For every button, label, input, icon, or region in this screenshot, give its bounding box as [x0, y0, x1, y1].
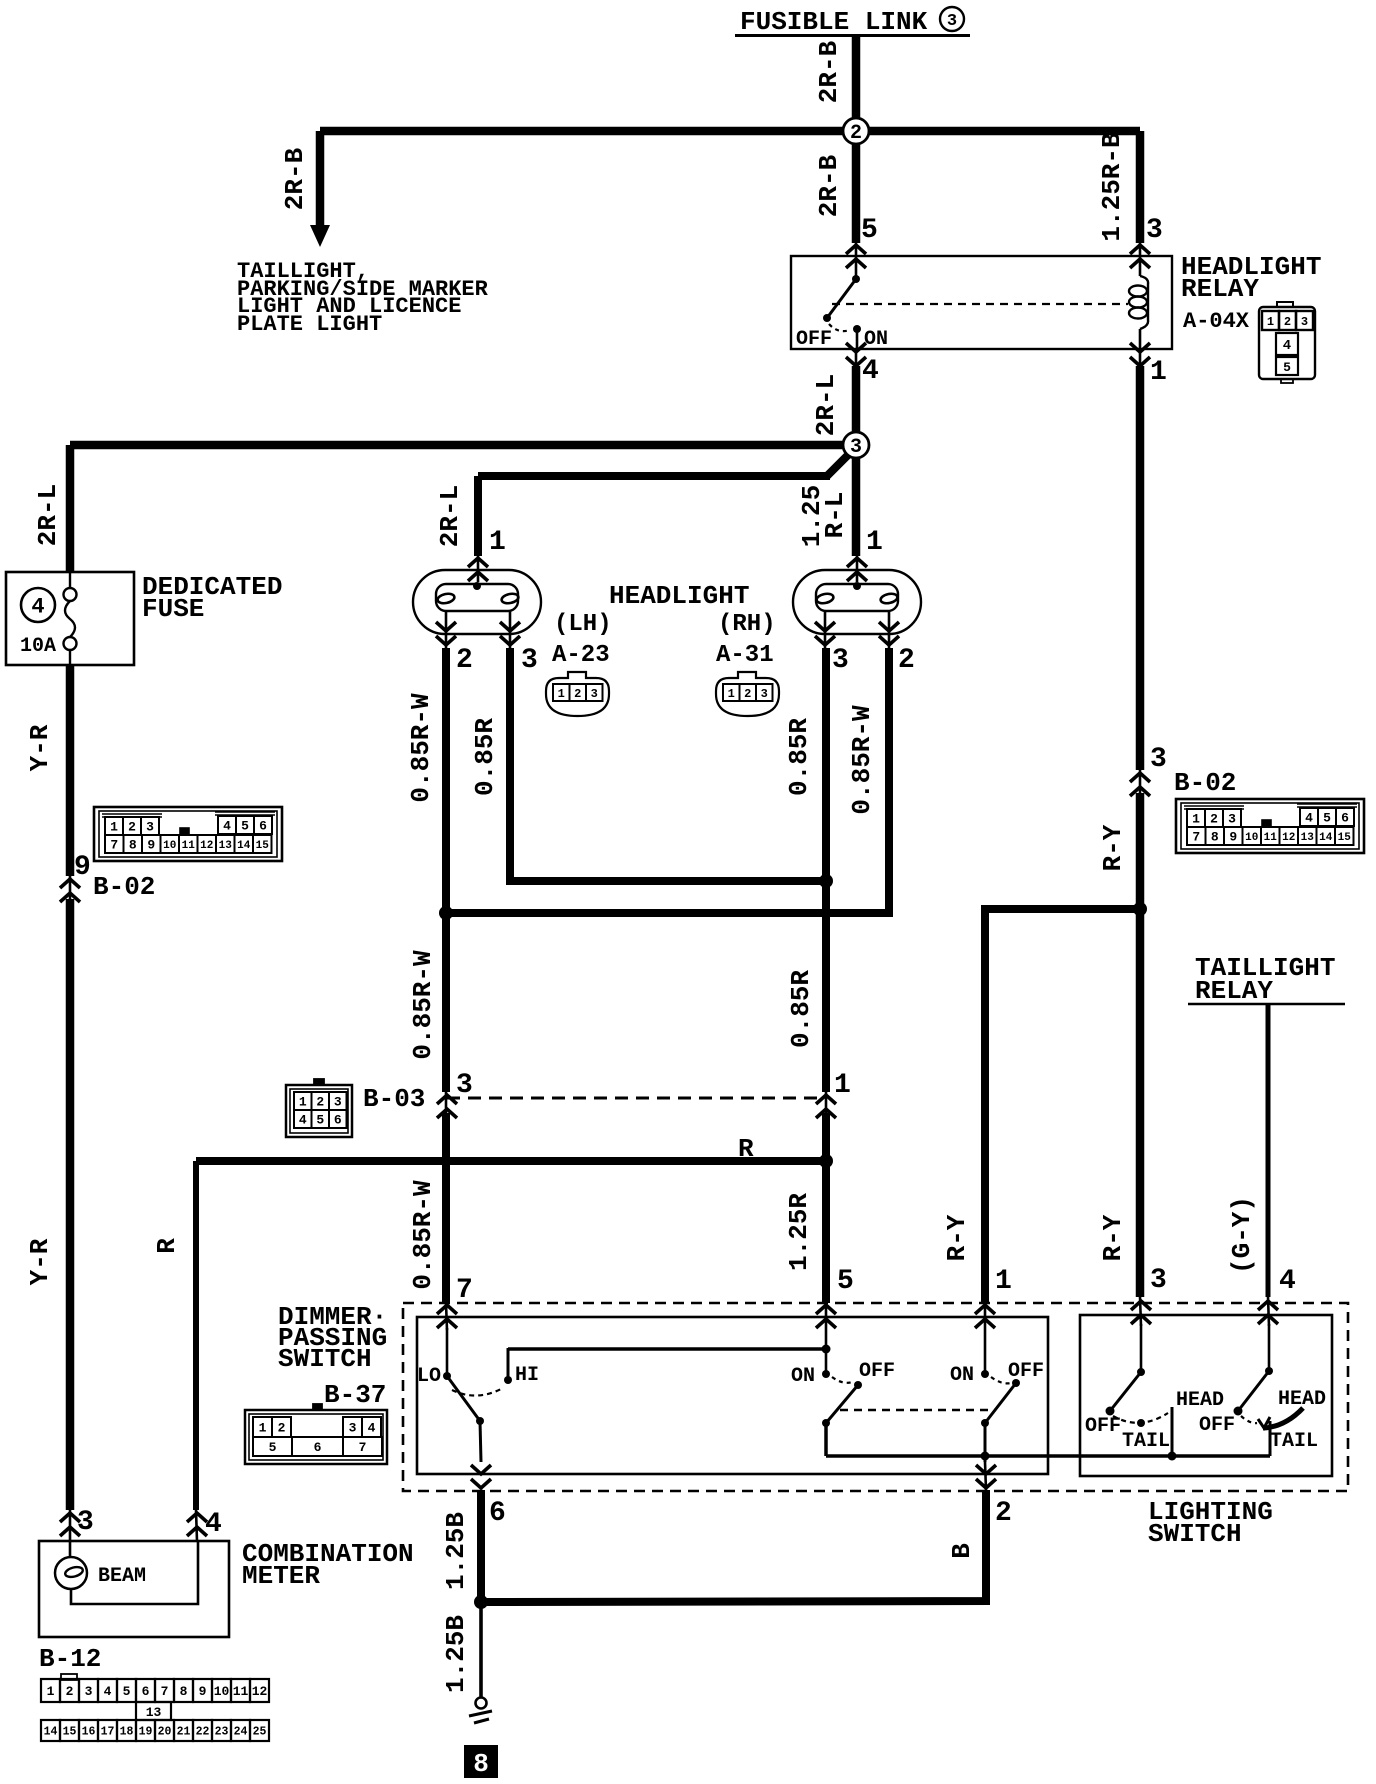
svg-text:7: 7 — [1192, 830, 1200, 845]
svg-text:9: 9 — [1229, 830, 1237, 845]
svg-text:1: 1 — [1192, 812, 1200, 827]
svg-text:4: 4 — [1305, 811, 1313, 826]
junction pin2 wire — [981, 1452, 990, 1461]
svg-text:B-02: B-02 — [93, 872, 155, 902]
label 2R-B (left branch) — [280, 147, 310, 210]
junction R on 1.25R wire — [819, 1154, 833, 1168]
pin 6 of dimmer switch — [471, 1465, 506, 1529]
svg-text:3: 3 — [521, 645, 538, 676]
label 0.85R (LH) — [470, 718, 500, 796]
pin 1 of dimmer switch — [975, 1266, 1012, 1330]
headlight RH bulb A-31 — [793, 570, 921, 648]
svg-text:BEAM: BEAM — [98, 1565, 146, 1588]
junction 0.85R wires — [819, 874, 833, 888]
svg-text:8: 8 — [473, 1749, 489, 1779]
pin 4 of headlight relay — [846, 343, 879, 387]
label R-Y (upper) — [1098, 824, 1128, 871]
ground symbol — [469, 1698, 492, 1724]
svg-text:3: 3 — [1150, 1265, 1167, 1296]
svg-text:OFF: OFF — [1199, 1414, 1235, 1437]
svg-text:14: 14 — [237, 840, 251, 852]
svg-text:6: 6 — [334, 1113, 342, 1128]
wire 2R-B from fusible link — [852, 37, 861, 131]
svg-text:Y-R: Y-R — [25, 724, 55, 771]
pin 2 LH headlight — [436, 622, 473, 676]
connector icon A-31 — [716, 672, 779, 716]
svg-text:2: 2 — [128, 820, 136, 835]
svg-text:8: 8 — [1211, 830, 1219, 845]
wire bus at node 2 — [320, 127, 1140, 136]
svg-text:RELAY: RELAY — [1181, 274, 1259, 304]
wire 0.85R-W below B-03 — [442, 1113, 450, 1303]
svg-text:18: 18 — [120, 1726, 134, 1739]
svg-text:25: 25 — [253, 1726, 267, 1739]
svg-text:1.25B: 1.25B — [441, 1512, 471, 1590]
svg-text:10: 10 — [163, 840, 176, 852]
svg-text:1: 1 — [995, 1266, 1012, 1297]
label 1.25B (lower) — [441, 1615, 471, 1693]
label B-12 — [39, 1644, 101, 1674]
pin 4 of combination meter — [187, 1509, 222, 1541]
svg-text:ON: ON — [791, 1365, 815, 1388]
svg-text:0.85R: 0.85R — [470, 718, 500, 796]
svg-text:R-L: R-L — [820, 492, 850, 539]
svg-text:HEADLIGHT: HEADLIGHT — [609, 581, 749, 611]
label 2R-L (LH headlight) — [435, 485, 465, 547]
svg-text:(RH): (RH) — [718, 611, 776, 638]
ground reference 8 — [464, 1745, 498, 1779]
wire 2R-L relay pin4 to node 3 — [852, 366, 861, 434]
svg-text:FUSE: FUSE — [142, 594, 204, 624]
svg-text:5: 5 — [241, 819, 249, 834]
combination meter box — [39, 1541, 229, 1637]
wire switch common to lighting switch — [826, 1454, 1270, 1458]
junction 0.85R-W wires — [439, 906, 453, 920]
wire 1.25B from dimmer pin 6 — [477, 1490, 485, 1602]
junction node 3 — [843, 432, 869, 459]
svg-text:2R-B: 2R-B — [814, 154, 844, 217]
svg-text:1: 1 — [489, 527, 506, 558]
svg-text:1: 1 — [259, 1421, 267, 1436]
svg-text:15: 15 — [1338, 832, 1352, 844]
wire R-Y branch to dimmer — [985, 909, 1140, 1303]
wire Y-R from fuse — [66, 665, 75, 876]
fuse element — [64, 572, 77, 665]
svg-text:Y-R: Y-R — [25, 1238, 55, 1285]
svg-text:6: 6 — [259, 819, 267, 834]
svg-text:FUSIBLE LINK: FUSIBLE LINK — [740, 7, 928, 37]
wire 2R-B to relay pin 5 — [852, 131, 861, 243]
svg-text:5: 5 — [861, 215, 878, 246]
svg-text:8: 8 — [180, 1684, 188, 1699]
svg-text:HI: HI — [515, 1364, 539, 1387]
svg-text:SWITCH: SWITCH — [1148, 1519, 1242, 1549]
svg-text:3: 3 — [850, 436, 862, 459]
svg-text:8: 8 — [129, 838, 137, 853]
svg-text:2: 2 — [66, 1684, 74, 1699]
junction R-Y — [1133, 902, 1147, 916]
svg-text:2: 2 — [744, 687, 751, 701]
wire 2R-L down to dedicated fuse — [66, 445, 75, 572]
svg-text:4: 4 — [31, 595, 44, 620]
svg-text:23: 23 — [215, 1726, 229, 1739]
wire 1.25B to ground — [479, 1602, 483, 1697]
svg-text:7: 7 — [456, 1275, 473, 1306]
dimmer-passing switch label — [278, 1302, 387, 1374]
svg-text:12: 12 — [200, 840, 213, 852]
svg-text:OFF: OFF — [1008, 1360, 1044, 1383]
svg-text:1.25R: 1.25R — [784, 1193, 814, 1271]
wire 0.85R-W from LH pin2 — [442, 648, 450, 1092]
connector B-02 icon (right) — [1176, 799, 1364, 853]
svg-text:OFF: OFF — [796, 328, 832, 351]
svg-text:0.85R-W: 0.85R-W — [847, 705, 877, 815]
svg-text:16: 16 — [82, 1726, 96, 1739]
pin 3 RH headlight — [815, 622, 849, 676]
svg-text:7: 7 — [161, 1684, 169, 1699]
switch assembly dashed box — [403, 1303, 1348, 1491]
label R-Y (dimmer branch) — [942, 1214, 972, 1261]
svg-text:ON: ON — [864, 328, 888, 351]
svg-text:11: 11 — [1264, 832, 1278, 844]
wire 0.85R from LH pin3 — [510, 648, 826, 881]
svg-text:2R-B: 2R-B — [280, 147, 310, 210]
pin 7 of dimmer switch — [437, 1275, 473, 1330]
svg-text:10: 10 — [214, 1684, 230, 1699]
svg-text:7: 7 — [359, 1440, 367, 1455]
meter internal wire — [71, 1541, 198, 1604]
connector B-02 icon (left) — [94, 807, 282, 861]
lighting switch label — [1148, 1497, 1273, 1549]
connector B-37 icon — [245, 1404, 387, 1464]
svg-text:2: 2 — [316, 1095, 324, 1110]
headlight LH bulb A-23 — [413, 570, 541, 648]
wire B from pin 2 — [481, 1490, 986, 1602]
label 0.85R-W (upper) — [406, 693, 436, 803]
pin 3 of lighting switch — [1131, 1265, 1167, 1326]
wire 2R-L horizontal to LH headlight — [478, 472, 830, 480]
wire R-Y to junction — [1136, 793, 1145, 1297]
svg-text:11: 11 — [233, 1684, 249, 1699]
lighting switch selector 1 — [1085, 1324, 1224, 1461]
svg-text:4: 4 — [368, 1421, 376, 1436]
svg-text:3: 3 — [334, 1095, 342, 1110]
pin 1 RH headlight — [847, 527, 883, 582]
svg-text:5: 5 — [837, 1266, 854, 1297]
wire 1.25R-B to relay pin 3 — [1136, 131, 1145, 243]
wire 0.85R from RH pin3 — [822, 648, 830, 1092]
svg-text:14: 14 — [44, 1726, 58, 1739]
svg-text:17: 17 — [101, 1726, 115, 1739]
wire R to combination meter — [193, 1161, 199, 1510]
dimmer LO-HI switch — [417, 1328, 539, 1462]
svg-text:5: 5 — [269, 1440, 277, 1455]
svg-text:R-Y: R-Y — [942, 1214, 972, 1261]
svg-text:2: 2 — [456, 645, 473, 676]
pin 5 of headlight relay — [846, 215, 878, 279]
svg-text:2R-B: 2R-B — [814, 40, 844, 103]
svg-text:ON: ON — [950, 1364, 974, 1387]
svg-text:13: 13 — [146, 1705, 162, 1720]
svg-text:2: 2 — [850, 122, 862, 145]
headlight relay A-04X box — [791, 256, 1172, 349]
svg-text:1: 1 — [866, 527, 883, 558]
label 2R-B (top) — [814, 40, 844, 103]
connector B-02 pin 3 marks — [1130, 744, 1167, 796]
svg-text:R: R — [738, 1134, 754, 1164]
label R (horizontal) — [738, 1134, 754, 1164]
svg-text:3: 3 — [947, 12, 957, 31]
svg-text:3: 3 — [77, 1507, 94, 1538]
dimmer-passing switch box — [417, 1317, 1048, 1474]
svg-text:3: 3 — [349, 1421, 357, 1436]
svg-text:1: 1 — [299, 1095, 307, 1110]
mechanical link dashed — [840, 1409, 996, 1411]
svg-text:OFF: OFF — [859, 1360, 895, 1383]
pin 2 of dimmer switch — [976, 1462, 1012, 1529]
wire 0.85R-W from RH pin2 — [446, 648, 889, 913]
svg-text:LO: LO — [417, 1365, 441, 1388]
svg-text:HEAD: HEAD — [1176, 1389, 1224, 1412]
junction node 2 — [843, 118, 869, 145]
label 1.25B (upper) — [441, 1512, 471, 1590]
svg-text:19: 19 — [139, 1726, 153, 1739]
label B-37 — [324, 1380, 386, 1410]
lighting switch box — [1080, 1315, 1332, 1476]
svg-text:2: 2 — [574, 687, 581, 701]
svg-text:METER: METER — [242, 1561, 320, 1591]
svg-text:TAIL: TAIL — [1122, 1430, 1170, 1453]
label 1.25R-B — [1097, 132, 1127, 242]
junction ground net — [474, 1595, 488, 1609]
svg-text:12: 12 — [252, 1684, 268, 1699]
svg-text:1: 1 — [728, 687, 735, 701]
svg-text:RELAY: RELAY — [1195, 976, 1273, 1006]
label (G-Y) — [1227, 1196, 1257, 1274]
label B-02 (left) — [93, 872, 155, 902]
dimmer ON-OFF switch 2 — [950, 1330, 1044, 1462]
relay coil — [1129, 276, 1148, 349]
svg-text:B-12: B-12 — [39, 1644, 101, 1674]
label 10A — [20, 635, 56, 658]
svg-text:3: 3 — [85, 1684, 93, 1699]
pin 1 of B-03 — [816, 1070, 851, 1118]
label DEDICATED FUSE — [142, 572, 282, 624]
dimmer ON-OFF switch 1 — [791, 1360, 895, 1456]
svg-text:B: B — [947, 1543, 977, 1559]
lighting switch selector 2 — [1199, 1324, 1326, 1456]
svg-text:6: 6 — [1341, 811, 1349, 826]
pin 3 of combination meter — [60, 1507, 94, 1541]
pin 4 of lighting switch — [1258, 1266, 1296, 1326]
dedicated fuse box — [6, 572, 134, 665]
svg-text:10: 10 — [1245, 832, 1258, 844]
title FUSIBLE LINK 3 — [735, 7, 970, 37]
svg-text:R-Y: R-Y — [1098, 824, 1128, 871]
label 0.85R-W (RH) — [847, 705, 877, 815]
svg-text:9: 9 — [74, 852, 91, 883]
svg-text:6: 6 — [489, 1498, 506, 1529]
svg-text:22: 22 — [196, 1726, 210, 1739]
svg-text:1: 1 — [1150, 357, 1167, 388]
svg-text:4: 4 — [205, 1509, 222, 1540]
svg-text:2: 2 — [1210, 812, 1218, 827]
pin 2 RH headlight — [879, 622, 915, 676]
junction HI wire on pin5 wire — [822, 1330, 831, 1374]
wire 1.25R-L node3 to RH headlight — [852, 450, 861, 556]
connector B-03 icon — [286, 1079, 352, 1137]
label 2R-B (to relay) — [814, 154, 844, 217]
wire HI contact to junction — [508, 1347, 826, 1351]
wire 1.25R below B-03 — [822, 1113, 830, 1303]
pin 3 of B-03 — [437, 1070, 473, 1118]
label Y-R (upper) — [25, 724, 55, 771]
connector B-12 icon — [41, 1674, 269, 1741]
label 2R-L (below relay) — [811, 374, 841, 436]
wire diagonal node3 to LH branch — [827, 452, 851, 476]
label Y-R (lower) — [25, 1238, 55, 1285]
wire Y-R to combination meter — [66, 899, 75, 1510]
svg-text:4: 4 — [1283, 338, 1291, 354]
svg-text:1: 1 — [1267, 315, 1274, 329]
svg-text:15: 15 — [63, 1726, 77, 1739]
svg-text:3: 3 — [832, 645, 849, 676]
wire node3 bus to left — [70, 441, 856, 450]
svg-text:13: 13 — [1301, 832, 1315, 844]
pin 5 of dimmer switch — [816, 1266, 854, 1330]
svg-text:3: 3 — [591, 687, 598, 701]
relay switch contact OFF-ON — [796, 275, 888, 351]
svg-text:4: 4 — [104, 1684, 112, 1699]
pin 3 LH headlight — [500, 622, 538, 676]
label HEADLIGHT (LH) (RH) — [552, 581, 776, 669]
svg-text:3: 3 — [146, 820, 154, 835]
svg-text:TAIL: TAIL — [1270, 1430, 1318, 1453]
relay name text — [1181, 252, 1321, 334]
svg-text:(G-Y): (G-Y) — [1227, 1196, 1257, 1274]
svg-text:0.85R-W: 0.85R-W — [408, 950, 438, 1060]
svg-text:2: 2 — [278, 1421, 286, 1436]
arrow to taillight circuit — [310, 225, 330, 247]
taillight relay label — [1188, 953, 1345, 1006]
svg-text:1: 1 — [834, 1070, 851, 1101]
connector icon A-04X — [1259, 302, 1315, 383]
pin 1 of headlight relay — [1130, 343, 1167, 388]
label COMBINATION METER — [242, 1539, 414, 1591]
svg-text:R-Y: R-Y — [1098, 1214, 1128, 1261]
wire R horizontal — [196, 1157, 826, 1165]
label 1.25R — [784, 1193, 814, 1271]
label 0.85R (mid) — [786, 970, 816, 1048]
svg-text:4: 4 — [223, 819, 231, 834]
svg-text:0.85R-W: 0.85R-W — [406, 693, 436, 803]
svg-text:12: 12 — [1282, 832, 1295, 844]
svg-text:1: 1 — [558, 687, 565, 701]
svg-text:15: 15 — [256, 840, 270, 852]
svg-text:3: 3 — [1146, 215, 1163, 246]
connector icon A-23 — [546, 672, 609, 716]
svg-text:7: 7 — [110, 838, 118, 853]
svg-text:A-23: A-23 — [552, 642, 610, 669]
label R (vertical) — [152, 1238, 182, 1254]
beam indicator bulb — [55, 1541, 146, 1589]
svg-text:5: 5 — [1323, 811, 1331, 826]
svg-text:2R-L: 2R-L — [811, 374, 841, 436]
label taillight destination — [237, 259, 489, 337]
svg-text:3: 3 — [761, 687, 768, 701]
svg-text:20: 20 — [158, 1726, 172, 1739]
svg-text:0.85R: 0.85R — [786, 970, 816, 1048]
svg-text:3: 3 — [1301, 315, 1308, 329]
svg-text:5: 5 — [1283, 360, 1291, 375]
svg-text:0.85R-W: 0.85R-W — [408, 1180, 438, 1290]
label 1.25R-L (RH headlight) — [797, 485, 850, 547]
label 0.85R (RH) — [784, 718, 814, 796]
svg-text:0.85R: 0.85R — [784, 718, 814, 796]
wire (G-Y) from taillight relay — [1266, 1004, 1271, 1297]
svg-text:9: 9 — [199, 1684, 207, 1699]
svg-text:5: 5 — [123, 1684, 131, 1699]
svg-text:1.25R-B: 1.25R-B — [1097, 132, 1127, 242]
svg-text:B-02: B-02 — [1174, 768, 1236, 798]
fuse circuit number 4 — [21, 588, 55, 622]
svg-text:PLATE LIGHT: PLATE LIGHT — [237, 312, 382, 337]
label R-Y (lighting branch) — [1098, 1214, 1128, 1261]
svg-text:24: 24 — [234, 1726, 248, 1739]
svg-text:2: 2 — [898, 645, 915, 676]
svg-text:2R-L: 2R-L — [33, 484, 63, 546]
wire branch to taillights — [316, 131, 325, 228]
svg-text:4: 4 — [299, 1113, 307, 1128]
svg-text:10A: 10A — [20, 635, 56, 658]
svg-text:4: 4 — [1279, 1266, 1296, 1297]
svg-text:9: 9 — [147, 838, 155, 853]
svg-text:3: 3 — [1228, 812, 1236, 827]
svg-text:R: R — [152, 1238, 182, 1254]
svg-text:SWITCH: SWITCH — [278, 1344, 372, 1374]
relay internal link dashed — [832, 303, 1128, 305]
svg-text:3: 3 — [456, 1070, 473, 1101]
svg-text:1: 1 — [47, 1684, 55, 1699]
svg-text:21: 21 — [177, 1726, 191, 1739]
svg-text:B-03: B-03 — [363, 1084, 425, 1114]
connector B-02 pin 9 marks — [60, 852, 91, 902]
svg-text:(LH): (LH) — [554, 611, 612, 638]
svg-text:A-31: A-31 — [716, 642, 774, 669]
label 0.85R-W (mid) — [408, 950, 438, 1060]
svg-text:2: 2 — [1284, 315, 1291, 329]
label 0.85R-W (lower) — [408, 1180, 438, 1290]
label B-03 — [363, 1084, 425, 1114]
pin 1 LH headlight — [468, 527, 506, 582]
wire 2R-L drop to LH headlight — [474, 476, 482, 556]
label 2R-L (fuse branch) — [33, 484, 63, 546]
svg-text:13: 13 — [219, 840, 233, 852]
connector B-03 dashed link — [447, 1097, 826, 1100]
svg-text:6: 6 — [314, 1440, 322, 1455]
svg-text:A-04X: A-04X — [1183, 309, 1250, 334]
label B-02 (right) — [1174, 768, 1236, 798]
svg-text:6: 6 — [142, 1684, 150, 1699]
svg-text:B-37: B-37 — [324, 1380, 386, 1410]
svg-text:14: 14 — [1319, 832, 1333, 844]
wire R-Y from relay pin 1 — [1136, 366, 1145, 770]
svg-text:11: 11 — [182, 840, 196, 852]
label B — [947, 1543, 977, 1559]
pin 3 of headlight relay — [1130, 215, 1163, 276]
svg-text:3: 3 — [1150, 744, 1167, 775]
svg-text:1: 1 — [110, 820, 118, 835]
